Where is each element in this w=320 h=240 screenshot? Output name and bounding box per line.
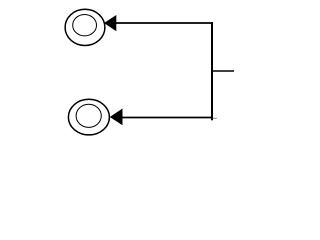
wire: top horizontal from arrowhead to right vertical <box>116 22 213 24</box>
wire: bottom horizontal from right vertical to arrowhead <box>122 117 213 119</box>
node P1 (top place, double ellipse) <box>65 9 105 45</box>
node P2 (bottom place, double ellipse) <box>68 99 109 135</box>
wire: right stub at middle <box>211 70 234 72</box>
wire: faint overshoot right of bottom junction <box>213 117 217 119</box>
wire: right vertical <box>211 22 213 120</box>
arrowhead into P2 <box>110 109 123 126</box>
arrowhead into P1 <box>104 15 116 31</box>
